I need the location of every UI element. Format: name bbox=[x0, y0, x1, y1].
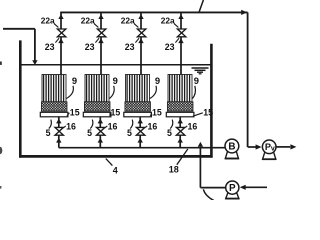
svg-text:23: 23 bbox=[45, 42, 55, 52]
svg-text:22a: 22a bbox=[161, 15, 175, 25]
svg-text:22a: 22a bbox=[121, 15, 135, 25]
svg-text:9: 9 bbox=[113, 75, 118, 86]
svg-text:5: 5 bbox=[167, 128, 172, 138]
svg-text:16: 16 bbox=[148, 122, 158, 132]
svg-text:5: 5 bbox=[127, 128, 132, 138]
svg-text:P: P bbox=[229, 183, 236, 194]
svg-text:B: B bbox=[228, 142, 235, 153]
svg-text:15: 15 bbox=[152, 108, 162, 118]
svg-text:5: 5 bbox=[87, 128, 92, 138]
svg-text:15: 15 bbox=[203, 108, 213, 118]
svg-text:9: 9 bbox=[72, 75, 77, 86]
svg-text:4: 4 bbox=[113, 165, 118, 175]
svg-text:9: 9 bbox=[194, 75, 199, 86]
svg-text:22a: 22a bbox=[81, 15, 95, 25]
svg-text:5: 5 bbox=[46, 128, 51, 138]
svg-text:23: 23 bbox=[165, 42, 175, 52]
svg-text:9: 9 bbox=[155, 75, 160, 86]
svg-text:23: 23 bbox=[85, 42, 95, 52]
svg-text:v: v bbox=[271, 145, 275, 152]
svg-text:16: 16 bbox=[188, 122, 198, 132]
svg-text:15: 15 bbox=[70, 108, 80, 118]
svg-text:16: 16 bbox=[108, 122, 118, 132]
svg-text:22a: 22a bbox=[41, 15, 55, 25]
svg-text:18: 18 bbox=[169, 165, 179, 175]
svg-text:15: 15 bbox=[111, 108, 121, 118]
svg-text:16: 16 bbox=[66, 122, 76, 132]
svg-text:23: 23 bbox=[125, 42, 135, 52]
